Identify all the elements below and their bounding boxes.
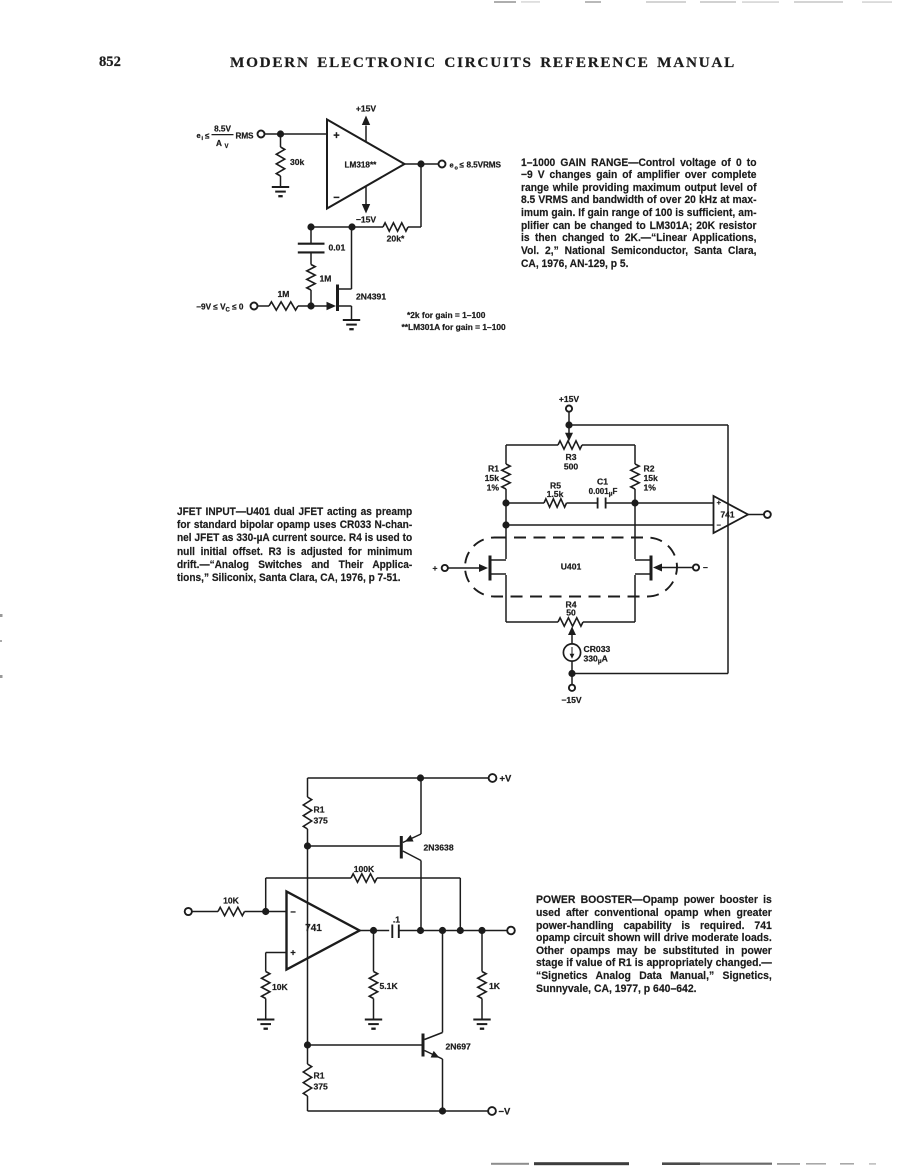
svg-text:2N697: 2N697 — [446, 1041, 472, 1051]
svg-text:R1: R1 — [488, 464, 499, 474]
svg-text:C1: C1 — [597, 476, 608, 486]
svg-text:741: 741 — [305, 923, 322, 934]
svg-text:e: e — [450, 161, 454, 170]
svg-text:1%: 1% — [487, 483, 500, 493]
svg-text:−: − — [717, 521, 722, 530]
svg-text:1M: 1M — [278, 289, 290, 299]
svg-text:−15V: −15V — [561, 695, 582, 705]
svg-text:10K: 10K — [272, 982, 289, 992]
svg-text:8.5VRMS: 8.5VRMS — [467, 161, 502, 170]
svg-text:330µA: 330µA — [584, 654, 608, 666]
svg-text:8.5V: 8.5V — [214, 125, 231, 134]
svg-text:375: 375 — [314, 1082, 329, 1092]
svg-text:.1: .1 — [393, 915, 400, 925]
svg-text:10K: 10K — [223, 896, 240, 906]
svg-text:30k: 30k — [290, 157, 305, 167]
svg-text:A: A — [216, 139, 222, 148]
svg-text:+15V: +15V — [559, 394, 580, 404]
svg-text:R2: R2 — [644, 464, 655, 474]
svg-text:100K: 100K — [354, 864, 375, 874]
svg-text:1.5k: 1.5k — [547, 489, 564, 499]
svg-text:+: + — [717, 498, 722, 507]
svg-text:U401: U401 — [561, 562, 582, 572]
svg-text:−15V: −15V — [356, 215, 377, 225]
svg-text:e: e — [197, 131, 201, 140]
svg-text:o: o — [455, 166, 459, 172]
svg-text:1%: 1% — [644, 483, 657, 493]
svg-text:≤: ≤ — [460, 161, 465, 170]
svg-text:−9V ≤ VC ≤ 0: −9V ≤ VC ≤ 0 — [196, 302, 244, 313]
svg-text:+15V: +15V — [356, 104, 377, 114]
svg-text:CR033: CR033 — [584, 644, 611, 654]
svg-text:50: 50 — [566, 607, 576, 617]
svg-text:375: 375 — [314, 815, 329, 825]
svg-text:0.001µF: 0.001µF — [589, 487, 618, 498]
svg-text:*2k for gain = 1–100: *2k for gain = 1–100 — [407, 310, 486, 320]
svg-text:i: i — [202, 136, 204, 142]
svg-text:500: 500 — [564, 462, 579, 472]
svg-text:1K: 1K — [489, 981, 501, 991]
svg-text:+: + — [433, 563, 438, 573]
svg-text:−: − — [333, 192, 339, 204]
svg-text:2N4391: 2N4391 — [356, 292, 386, 302]
svg-text:R1: R1 — [314, 1071, 325, 1081]
svg-text:0.01: 0.01 — [329, 243, 346, 253]
svg-text:R3: R3 — [566, 452, 577, 462]
svg-text:+: + — [333, 130, 339, 142]
svg-text:≤: ≤ — [205, 132, 210, 141]
svg-text:2N3638: 2N3638 — [424, 842, 454, 852]
svg-text:15k: 15k — [644, 473, 659, 483]
svg-text:+: + — [290, 948, 296, 959]
svg-text:R1: R1 — [314, 804, 325, 814]
svg-text:5.1K: 5.1K — [380, 981, 399, 991]
svg-text:RMS: RMS — [236, 132, 255, 141]
svg-text:−V: −V — [499, 1106, 511, 1117]
svg-text:741: 741 — [721, 510, 735, 520]
svg-text:−: − — [703, 563, 708, 573]
svg-text:**LM301A for gain = 1–100: **LM301A for gain = 1–100 — [402, 322, 507, 332]
svg-text:20k*: 20k* — [387, 234, 405, 244]
svg-text:−: − — [290, 907, 296, 918]
svg-text:V: V — [225, 144, 229, 150]
svg-text:15k: 15k — [485, 473, 500, 483]
svg-text:1M: 1M — [320, 274, 332, 284]
svg-text:LM318**: LM318** — [345, 161, 378, 170]
svg-text:+V: +V — [500, 773, 512, 784]
